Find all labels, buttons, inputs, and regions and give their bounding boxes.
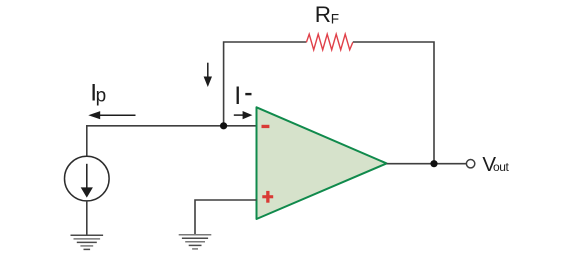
- svg-text:p: p: [96, 86, 107, 107]
- wire output: [387, 163, 467, 165]
- arrow Ip (current direction, pointing left): [99, 114, 136, 116]
- wire input horizontal: [87, 126, 257, 157]
- current source I1: [65, 156, 110, 201]
- terminal Vout (open circle): [466, 160, 474, 168]
- arrow feedback current (pointing down): [207, 63, 209, 78]
- svg-text:out: out: [493, 160, 510, 174]
- arrow I- (pointing right into op-amp): [234, 114, 244, 116]
- ground G1: [71, 235, 104, 249]
- svg-text:R: R: [315, 2, 331, 27]
- svg-text:F: F: [331, 12, 339, 27]
- ground G2: [179, 235, 212, 249]
- node inverting input junction: [220, 122, 227, 129]
- resistor RF: [306, 34, 352, 50]
- node output junction: [430, 160, 437, 167]
- wire feedback top left segment: [224, 42, 307, 126]
- op-amp plus sign: [262, 195, 273, 198]
- op-amp U1: [257, 107, 387, 219]
- wire current source to ground: [86, 201, 88, 235]
- svg-text:I: I: [234, 82, 241, 110]
- current source arrow: [86, 164, 88, 189]
- wire non-inverting input to ground: [195, 200, 257, 235]
- op-amp minus sign: [262, 125, 270, 128]
- wire feedback top right segment: [353, 42, 434, 164]
